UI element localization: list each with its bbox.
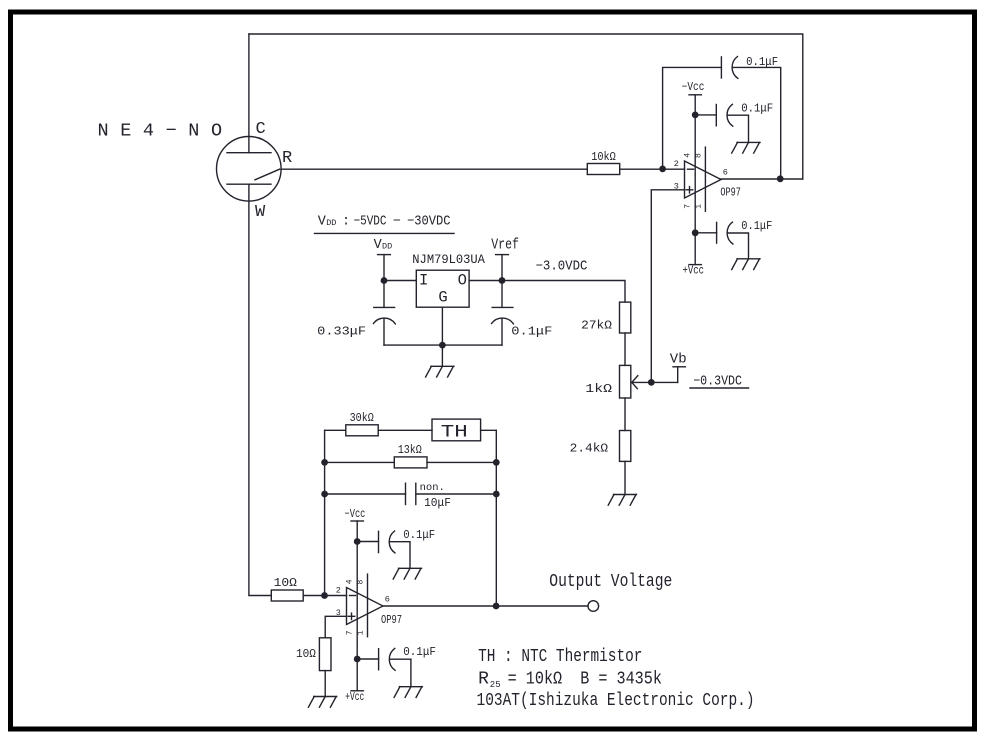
- capacitor C1 curved plate: [732, 57, 738, 79]
- svg-text:0.1μF: 0.1μF: [403, 528, 435, 542]
- thermistor TH box: [432, 419, 481, 441]
- svg-text:+Vcc: +Vcc: [345, 691, 364, 704]
- wire Vref stem: [501, 255, 503, 308]
- wire C8 to ground: [390, 659, 411, 687]
- wire -Vcc to C2: [695, 114, 716, 116]
- wire pot to 2.4k: [624, 398, 626, 431]
- wire C3 to ground: [728, 233, 749, 259]
- wire -Vcc to C7: [357, 541, 378, 543]
- supply -Vcc U1 bar: [689, 94, 701, 96]
- wire 2.4k to ground: [624, 461, 626, 494]
- supply +Vcc U3 bar: [351, 690, 363, 692]
- svg-text:2: 2: [674, 159, 679, 169]
- U1 minus sign: [688, 168, 694, 170]
- wire Vb stem: [677, 367, 679, 383]
- wire 30k to TH: [378, 429, 432, 431]
- svg-text:Vref: Vref: [491, 238, 519, 254]
- U1 plus sign: [686, 187, 692, 193]
- svg-text:−Vcc: −Vcc: [345, 508, 366, 521]
- ground G2: [732, 259, 760, 270]
- node U1 inverting junction: [659, 166, 666, 173]
- svg-text:G: G: [438, 288, 447, 306]
- wire Vref to ladder: [502, 281, 625, 303]
- sensor R lead wire to R1: [281, 168, 587, 170]
- wire R1 to U1 inverting: [620, 168, 685, 170]
- svg-text:−0.3VDC: −0.3VDC: [693, 374, 742, 389]
- capacitor C4 curved plate: [373, 318, 395, 324]
- svg-text:−30VDC: −30VDC: [407, 215, 451, 230]
- svg-text:8: 8: [357, 580, 366, 585]
- node feedback-output junction: [777, 175, 784, 182]
- wire 13k branch right: [427, 461, 496, 463]
- op-amp U1 triangle: [685, 161, 722, 198]
- underline -0.3VDC: [690, 387, 749, 389]
- resistor R5 30k body: [346, 425, 378, 436]
- svg-text:Vb: Vb: [670, 351, 687, 367]
- svg-text:−5VDC: −5VDC: [354, 215, 387, 230]
- svg-text:C: C: [256, 120, 266, 139]
- capacitor C7 0.1uF plate: [378, 531, 380, 552]
- wire R8 to ground: [324, 671, 326, 697]
- sensor W lead wire down-left: [249, 184, 271, 595]
- svg-text:30kΩ: 30kΩ: [350, 411, 374, 425]
- svg-text:Output Voltage: Output Voltage: [549, 572, 672, 592]
- capacitor C3 curved plate: [727, 222, 733, 244]
- wire C5 to rail: [501, 319, 503, 346]
- node output junction: [493, 603, 500, 610]
- wire U3 noninverting to R8: [325, 616, 346, 638]
- svg-text:0.1μF: 0.1μF: [403, 645, 436, 659]
- ground G3: [426, 366, 454, 377]
- U3 minus sign: [350, 595, 356, 597]
- svg-text:1: 1: [695, 204, 704, 209]
- TH network right rail: [495, 430, 497, 606]
- svg-text:10kΩ: 10kΩ: [591, 150, 616, 164]
- svg-text:1kΩ: 1kΩ: [585, 382, 612, 396]
- svg-text:DD: DD: [382, 241, 392, 251]
- wire 13k branch left: [325, 461, 395, 463]
- wire C7 to ground: [390, 542, 410, 569]
- svg-text:−: −: [393, 215, 401, 230]
- svg-text:O: O: [458, 272, 467, 290]
- svg-text:10Ω: 10Ω: [274, 576, 297, 590]
- label VDD note: [318, 215, 451, 230]
- ground G7: [394, 687, 422, 698]
- svg-text:4: 4: [684, 153, 693, 158]
- wire U3 output: [383, 605, 588, 607]
- terminal output open circle: [588, 601, 599, 612]
- svg-text:OP97: OP97: [720, 187, 741, 200]
- svg-text:non.: non.: [420, 482, 445, 494]
- svg-text:−3.0VDC: −3.0VDC: [536, 260, 588, 275]
- supply +Vcc U1 bar: [689, 264, 701, 266]
- potentiometer R3 1k body: [620, 365, 631, 398]
- regulator U2 NJM79L03UA box: [416, 270, 469, 307]
- svg-text:7: 7: [684, 204, 693, 209]
- capacitor C2 0.1uF plate: [715, 105, 717, 126]
- ground G5: [393, 568, 421, 579]
- wire VDD to regulator: [384, 280, 416, 282]
- ground G4: [608, 495, 636, 506]
- U1 power pin line 4-7: [694, 95, 696, 265]
- wire top loop from C to outer right: [249, 34, 803, 179]
- capacitor C8 curved plate: [389, 648, 395, 670]
- node 13k left: [321, 459, 328, 466]
- sensor top plate: [227, 152, 271, 154]
- node -Vcc U3: [354, 538, 361, 545]
- svg-text:10Ω: 10Ω: [296, 647, 316, 661]
- capacitor C5 curved plate: [492, 318, 514, 324]
- node +Vcc U3: [354, 656, 361, 663]
- wire VDD stem: [383, 255, 385, 308]
- node 13k right: [493, 459, 500, 466]
- svg-text:DD: DD: [326, 218, 336, 228]
- svg-text:8: 8: [695, 153, 704, 158]
- resistor R7 10ohm body: [271, 590, 303, 601]
- svg-text:R: R: [282, 149, 292, 168]
- node rail: [439, 342, 446, 349]
- svg-text:2.4kΩ: 2.4kΩ: [570, 441, 608, 455]
- node cap branch left: [321, 491, 328, 498]
- svg-text:1: 1: [357, 630, 366, 635]
- node -Vcc U1: [692, 112, 699, 119]
- svg-text:OP97: OP97: [381, 614, 402, 627]
- svg-text:NJM79L03UA: NJM79L03UA: [412, 252, 485, 267]
- wire C4 to rail: [383, 319, 385, 346]
- sensor heater diagonal: [255, 169, 280, 180]
- svg-text:4: 4: [346, 579, 355, 584]
- VDD note underline: [315, 232, 455, 234]
- wire wiper to Vb: [651, 381, 677, 383]
- resistor R1 10k body: [587, 164, 619, 175]
- supply Vref bar: [496, 254, 509, 256]
- wire feedback loop up: [663, 67, 722, 169]
- node Vref: [499, 277, 506, 284]
- capacitor C5 0.1uF plate: [492, 306, 513, 308]
- svg-text:0.1μF: 0.1μF: [741, 102, 773, 116]
- svg-text::: :: [342, 215, 350, 230]
- svg-text:7: 7: [346, 630, 355, 635]
- TH network left rail: [324, 430, 326, 595]
- svg-text:2: 2: [336, 585, 341, 595]
- svg-text:−Vcc: −Vcc: [682, 81, 705, 94]
- ground G1: [732, 142, 760, 153]
- svg-text:10μF: 10μF: [424, 496, 451, 510]
- capacitor C8 0.1uF plate: [378, 649, 380, 670]
- node U3 inverting junction: [321, 592, 328, 599]
- ground G6: [308, 697, 336, 708]
- potentiometer wiper arrow: [632, 376, 652, 389]
- svg-text:W: W: [255, 203, 266, 222]
- svg-text:+Vcc: +Vcc: [683, 265, 705, 278]
- svg-text:I: I: [419, 272, 428, 290]
- svg-text:= 10kΩ B = 3435k: = 10kΩ B = 3435k: [499, 669, 662, 689]
- resistor R4 2.4k body: [620, 431, 631, 462]
- wire C1 to output: [733, 67, 781, 179]
- wire ground rail: [384, 344, 502, 346]
- wire TH to right rail: [481, 429, 497, 431]
- wire 27k to pot: [624, 333, 626, 365]
- wire cap branch left: [325, 493, 406, 495]
- sensor C lead: [248, 34, 250, 153]
- wire C2 to ground: [728, 115, 749, 142]
- U1 aux pin line 8-1: [704, 147, 706, 211]
- svg-text:TH: TH: [441, 423, 468, 443]
- capacitor C7 curved plate: [389, 531, 395, 553]
- svg-text:0.1μF: 0.1μF: [511, 325, 552, 339]
- svg-text:R: R: [478, 669, 489, 689]
- wire regulator output to Vref: [469, 280, 502, 282]
- node VDD: [381, 277, 388, 284]
- label VDD: [374, 238, 393, 253]
- capacitor C6 10uF plate left: [405, 483, 407, 504]
- capacitor C4 0.33uF plate: [374, 306, 395, 308]
- U3 power pin line 4-7: [356, 521, 358, 691]
- wire U1 noninverting down to wiper: [651, 190, 684, 383]
- svg-text:NE4−NO: NE4−NO: [98, 120, 234, 141]
- sensor NE4-NO body circle: [217, 137, 282, 202]
- node cap branch right: [493, 491, 500, 498]
- capacitor C3 0.1uF plate: [716, 222, 718, 243]
- node +Vcc U1: [692, 229, 699, 236]
- wire U1 output: [721, 178, 803, 180]
- capacitor C1 0.1uF feedback plate: [720, 57, 722, 78]
- U3 plus sign: [348, 613, 354, 619]
- supply VDD bar: [378, 254, 391, 256]
- svg-text:TH : NTC Thermistor: TH : NTC Thermistor: [478, 647, 642, 667]
- svg-text:27kΩ: 27kΩ: [581, 318, 612, 332]
- sensor bottom plate: [227, 183, 271, 185]
- wire cap branch right: [416, 493, 497, 495]
- wire +Vcc to C3: [695, 232, 716, 234]
- resistor R2 27k body: [620, 302, 631, 333]
- supply -Vcc U3 bar: [351, 520, 363, 522]
- wire top branch left: [325, 429, 346, 431]
- svg-text:0.33μF: 0.33μF: [317, 325, 366, 339]
- capacitor C2 curved plate: [727, 104, 733, 126]
- capacitor C6 10uF plate right: [415, 483, 417, 504]
- op-amp U3 triangle: [347, 588, 384, 625]
- resistor R6 13k body: [394, 457, 427, 468]
- svg-text:103AT(Ishizuka Electronic Corp: 103AT(Ishizuka Electronic Corp.): [477, 691, 755, 711]
- wire R7 to U3 inverting: [303, 595, 346, 597]
- node wiper junction: [648, 379, 655, 386]
- svg-text:13kΩ: 13kΩ: [398, 443, 422, 457]
- svg-text:6: 6: [723, 167, 728, 177]
- wire +Vcc to C8: [357, 658, 378, 660]
- resistor R8 10ohm body: [319, 638, 331, 671]
- wire regulator G stem: [441, 307, 443, 366]
- supply Vb bar: [673, 366, 685, 368]
- svg-text:0.1μF: 0.1μF: [741, 219, 772, 233]
- svg-text:6: 6: [385, 595, 390, 605]
- U3 aux pin line 8-1: [367, 574, 369, 637]
